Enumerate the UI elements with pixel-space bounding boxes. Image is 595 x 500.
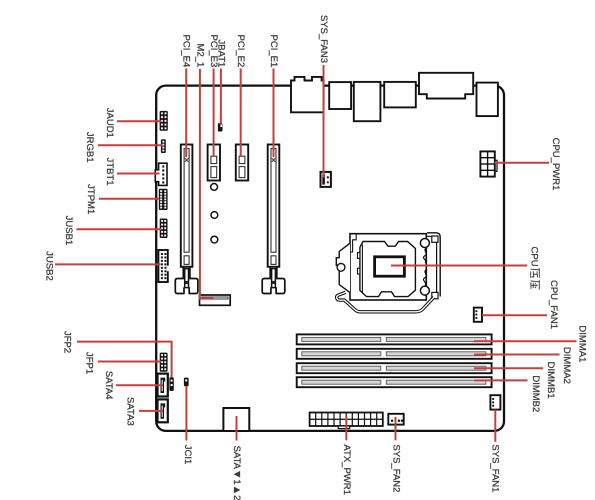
CPU socket plate left tab 1 (358, 253, 360, 259)
svg-text:JBAT1: JBAT1 (215, 39, 226, 67)
header JRGB1 (161, 139, 166, 153)
svg-text:DIMMA2: DIMMA2 (561, 347, 572, 384)
CPU socket load lever (337, 292, 434, 312)
svg-text:JFP2: JFP2 (62, 331, 73, 353)
svg-text:CPU_FAN1: CPU_FAN1 (548, 280, 559, 329)
slot PCI_E4 (175, 145, 198, 294)
M.2 slot M2_1 (200, 295, 231, 305)
svg-text:CPU_PWR1: CPU_PWR1 (550, 138, 561, 191)
wire CPU_FAN1 (482, 314, 547, 316)
wire DIMMB1 (474, 367, 543, 369)
wire JTPM1 (99, 198, 160, 200)
mounting hole 1 (211, 184, 218, 191)
svg-text:JTBT1: JTBT1 (104, 158, 115, 186)
wire DIMMA1 (474, 340, 577, 342)
wire JTBT1 (117, 173, 160, 175)
header JFP1 (160, 353, 168, 372)
connector SATA4 (158, 374, 168, 397)
svg-text:PCI_E4: PCI_E4 (181, 35, 192, 68)
wire SYS_FAN1 (494, 410, 496, 442)
connector SATA1/2 (223, 408, 249, 431)
svg-text:JFP1: JFP1 (84, 352, 95, 374)
wire SYS_FAN2 (395, 417, 397, 440)
rear IO USB connector A (329, 82, 351, 109)
CPU socket plate left tab 2 (358, 268, 360, 274)
svg-text:DIMMB1: DIMMB1 (545, 362, 556, 399)
rear IO USB connector B (354, 82, 381, 121)
svg-text:JUSB2: JUSB2 (43, 251, 54, 281)
mounting hole 3 (211, 236, 218, 243)
slot PCI_E1 (262, 145, 285, 294)
header JCI1 (184, 378, 189, 387)
svg-text:SATA▼1▲2: SATA▼1▲2 (231, 446, 243, 500)
wire JFP2 (77, 342, 172, 378)
svg-text:JTPM1: JTPM1 (85, 184, 96, 214)
rear IO USB connector C (384, 82, 416, 108)
svg-text:DIMMA1: DIMMA1 (577, 325, 588, 362)
wire SATA4 (116, 384, 163, 386)
connector CPU_PWR1 (480, 151, 497, 176)
svg-text:PCI_E2: PCI_E2 (235, 35, 246, 68)
CPU socket bracket (350, 234, 426, 300)
label CPU socket (CPU di zuo) (529, 247, 540, 290)
wire JFP1 (98, 361, 162, 363)
wire PCI_E1 (273, 69, 275, 158)
wire M2_1 (200, 69, 213, 299)
rear IO VGA connector (419, 73, 473, 99)
CPU socket spring bottom (423, 269, 427, 285)
wire JUSB1 (77, 228, 162, 230)
connector SATA3 (158, 399, 168, 422)
wire CPU_PWR1 (495, 162, 550, 164)
connector SYS_FAN2 (388, 414, 403, 425)
svg-text:SATA3: SATA3 (125, 397, 136, 426)
connector CPU_FAN1 (474, 308, 482, 322)
svg-text:JRGB1: JRGB1 (84, 132, 95, 163)
wire PCI_E2 (240, 69, 242, 158)
CPU socket left hinge wing (336, 243, 350, 292)
CPU socket spring top (423, 248, 427, 263)
svg-text:JAUD1: JAUD1 (104, 108, 115, 138)
jumper JBAT1 (218, 123, 223, 131)
CPU socket bracket step (350, 234, 356, 252)
svg-text:M2_1: M2_1 (194, 44, 205, 68)
wire DIMMB2 (474, 379, 528, 381)
wire JCI1 (185, 386, 187, 441)
slot PCI_E2 (236, 145, 248, 181)
slot DIMMA1 (297, 334, 492, 344)
wire SATA3 (139, 410, 163, 412)
slot DIMMB2 (297, 377, 492, 387)
svg-text:SATA4: SATA4 (103, 371, 114, 400)
connector ATX_PWR1 (310, 413, 383, 429)
CPU socket right tab top (432, 236, 438, 242)
slot PCI_E3 (208, 145, 220, 181)
wire JAUD1 (117, 120, 162, 122)
rear IO LAN connector (477, 83, 498, 117)
wire SYS_FAN3 (323, 65, 325, 178)
wire JRGB1 (98, 144, 163, 146)
svg-text:SYS_FAN1: SYS_FAN1 (490, 444, 501, 492)
CPU socket plate inner edge (361, 245, 363, 294)
header JTPM1 (159, 189, 168, 210)
slot DIMMB1 (297, 363, 492, 373)
header JTBT1 (155, 163, 167, 185)
rear IO PS/2+audio connector (291, 77, 324, 112)
wire ATX_PWR1 (345, 416, 347, 440)
svg-text:SYS_FAN3: SYS_FAN3 (318, 15, 329, 63)
CPU socket load plate (360, 242, 416, 297)
svg-text:DIMMB2: DIMMB2 (530, 375, 541, 412)
svg-text:ATX_PWR1: ATX_PWR1 (341, 444, 352, 495)
wire PCI_E3 (213, 69, 215, 158)
CPU socket lever bar right (427, 233, 440, 297)
svg-text:CPU: CPU (529, 247, 540, 267)
header JUSB1 (160, 219, 168, 239)
CPU socket left hinge hole (337, 263, 345, 271)
header JUSB2 (158, 250, 168, 282)
svg-text:JCI1: JCI1 (182, 445, 193, 465)
wire DIMMA2 (474, 354, 560, 356)
CPU die window (375, 257, 405, 276)
CPU socket lever hook bottom (420, 286, 429, 295)
mounting hole 2 (211, 212, 218, 219)
wire PCI_E4 (185, 69, 187, 158)
wire SATA1/2 (236, 416, 238, 441)
header JFP2 (169, 377, 173, 391)
wire CPU socket (391, 265, 527, 267)
motherboard outline (156, 86, 504, 431)
connector SYS_FAN3 (321, 172, 331, 187)
CPU socket lever hook top (420, 239, 429, 248)
wire JBAT1 (220, 69, 222, 124)
connector SYS_FAN1 (490, 395, 500, 409)
CPU socket right tab bottom (432, 292, 438, 298)
slot DIMMA2 (297, 349, 492, 359)
header JAUD1 (160, 111, 168, 131)
svg-text:SYS_FAN2: SYS_FAN2 (390, 444, 401, 492)
svg-text:PCI_E1: PCI_E1 (268, 35, 279, 68)
svg-text:JUSB1: JUSB1 (63, 216, 74, 246)
wire JUSB2 (55, 263, 161, 265)
